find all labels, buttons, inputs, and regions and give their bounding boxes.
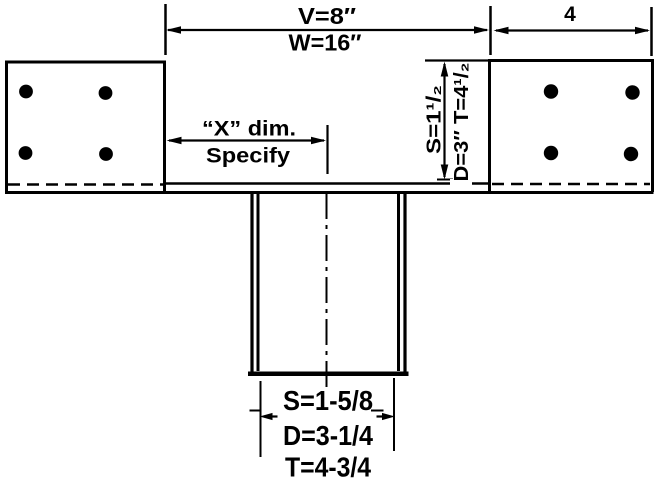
column tube bottom end: [248, 371, 409, 376]
svg-text:“X” dim.: “X” dim.: [202, 118, 296, 141]
svg-text:S=1¹/₂: S=1¹/₂: [424, 85, 446, 154]
value label D=3" T=4 1/2 (rotated, white backed): [450, 63, 473, 189]
wire: bottom tick of S/D/T vertical dimension: [437, 179, 453, 181]
wire: top extension line of S/D/T vertical dimension: [425, 59, 489, 61]
wire: left extension line of bottom S/D/T dimension: [260, 381, 262, 457]
wire: left arrow of bottom dimension: [260, 413, 278, 420]
right side plate outline: [490, 61, 653, 193]
wire: hidden (dashed) seat line in left plate: [8, 183, 163, 186]
column tube right outer wall: [403, 193, 406, 373]
wire: middle extension line between V/W and 4 dimensions: [489, 6, 492, 55]
svg-text:D=3-1/4: D=3-1/4: [283, 420, 373, 451]
bolt hole right plate bottom-right: [624, 147, 638, 161]
column tube left inner wall: [257, 193, 260, 371]
svg-text:4: 4: [564, 3, 576, 26]
wire: right arrow of bottom dimension: [377, 413, 396, 420]
wire: right extension line of 4 dimension: [650, 7, 653, 56]
bolt hole right plate top-right: [625, 85, 639, 99]
bolt hole left plate bottom-left: [19, 146, 33, 160]
value label S=1-5/8: [283, 385, 373, 416]
svg-text:V=8″: V=8″: [298, 3, 356, 29]
wire: S/D/T vertical dimension line with arrows: [441, 62, 449, 180]
value label T=4-3/4: [285, 452, 371, 482]
wire: V/W dimension line with arrows: [166, 26, 489, 34]
wire: right stub of S dimension line: [371, 410, 384, 412]
bolt hole left plate top-left: [19, 85, 33, 99]
wire: 4 dimension line with arrows: [494, 27, 651, 35]
left side plate outline: [7, 62, 165, 194]
bolt hole right plate top-left: [544, 84, 558, 98]
value label D=3-1/4: [283, 420, 373, 451]
wire: left stub of S dimension line: [250, 410, 262, 412]
wire: right extension line of X dimension: [326, 125, 328, 174]
svg-text:W=16″: W=16″: [289, 30, 362, 56]
column tube left outer wall: [250, 193, 253, 373]
svg-text:S=1-5/8: S=1-5/8: [283, 385, 373, 416]
value label W=16": [289, 30, 362, 56]
bolt hole left plate bottom-right: [99, 147, 113, 161]
label Specify: [206, 145, 290, 168]
bolt hole left plate top-right: [99, 86, 113, 100]
column tube right inner wall: [397, 193, 400, 371]
wire: seat plate top edge between plates: [165, 182, 490, 185]
svg-text:D=3″ T=4¹/₂: D=3″ T=4¹/₂: [451, 63, 473, 182]
label "X" dim.: [202, 118, 296, 141]
svg-text:T=4-3/4: T=4-3/4: [285, 452, 371, 482]
wire: right extension line of bottom S/D/T dimension: [393, 378, 395, 451]
bolt hole right plate bottom-left: [544, 146, 558, 160]
wire: X dimension line with arrows: [167, 137, 327, 145]
value label S=1 1/2 (rotated): [424, 85, 446, 154]
wire: full width bottom edge of cap: [5, 191, 654, 194]
wire: hidden (dashed) seat line in right plate: [492, 183, 650, 186]
wire: column centerline (dash-dot): [326, 193, 328, 390]
value label V=8": [298, 3, 356, 29]
value label 4: [564, 3, 576, 26]
wire: left extension line of V/W dimension: [164, 4, 167, 55]
svg-text:Specify: Specify: [206, 145, 290, 168]
